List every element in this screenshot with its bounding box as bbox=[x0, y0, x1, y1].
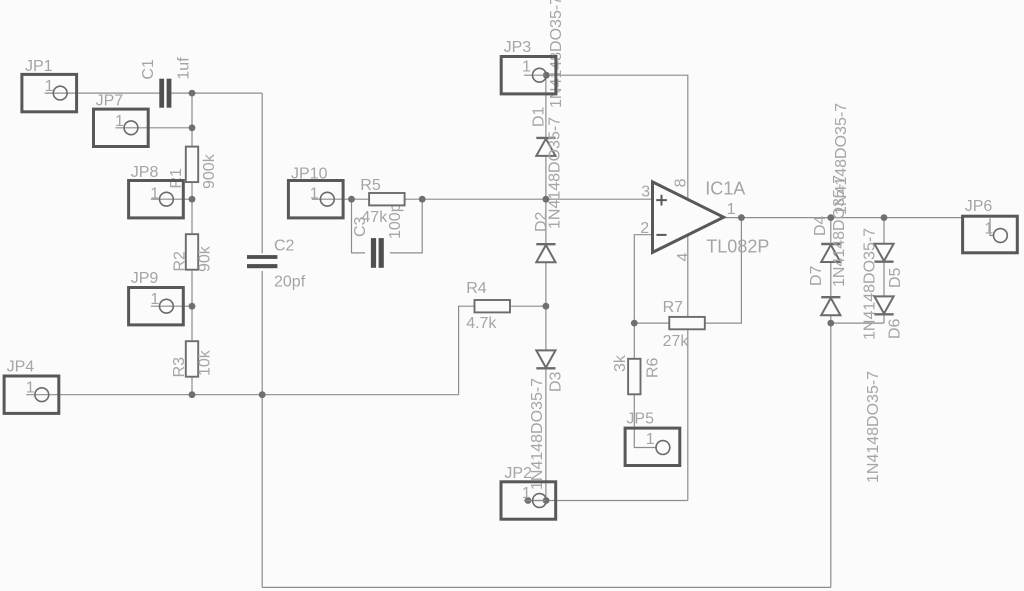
svg-text:1: 1 bbox=[522, 485, 531, 502]
wire R6 bottom to JP5 pin bbox=[634, 393, 656, 447]
junction JP8 pin / R1-R2 bbox=[189, 196, 196, 203]
wire JP3 to op-amp pin 8 bbox=[546, 75, 688, 199]
wire JP1 pin to C1 left plate bbox=[67, 92, 160, 94]
wire R2 bottom to JP9 junction bbox=[191, 271, 193, 306]
junction C2 rail / JP4 row bbox=[259, 391, 266, 398]
junction pin2 / R7 / R6 bbox=[631, 320, 638, 327]
wire C1 right plate to C2 rail, net N$1 bbox=[171, 92, 262, 94]
svg-text:1: 1 bbox=[45, 78, 54, 95]
connector JP5 bbox=[625, 411, 680, 466]
diode D7 (1N4148DO35-7) bbox=[808, 175, 848, 315]
svg-text:IC1A: IC1A bbox=[705, 179, 745, 199]
wire D4 anode to D7 cathode bbox=[830, 262, 832, 296]
svg-text:R7: R7 bbox=[663, 299, 684, 316]
junction D7 anode / bottom rail bbox=[827, 320, 834, 327]
svg-text:1: 1 bbox=[310, 186, 319, 203]
svg-text:27k: 27k bbox=[663, 333, 690, 350]
capacitor C1 (1uf) bbox=[140, 57, 193, 108]
capacitor C3 (100p) bbox=[352, 203, 404, 267]
wire junction C1 down to R1 top bbox=[191, 93, 193, 147]
wire op-amp pin 2 to feedback junction bbox=[634, 235, 652, 323]
diode D6 (1N4148DO35-7) bbox=[865, 296, 904, 483]
svg-text:1N4148DO35-7: 1N4148DO35-7 bbox=[865, 371, 882, 483]
svg-text:JP7: JP7 bbox=[96, 93, 124, 110]
wire R1 bottom to JP8 junction bbox=[191, 182, 193, 199]
svg-text:1N4148DO35-7: 1N4148DO35-7 bbox=[831, 175, 848, 287]
wire JP3 junction down to D1 cathode bbox=[545, 75, 547, 137]
connector JP3 bbox=[501, 39, 556, 94]
svg-text:JP2: JP2 bbox=[504, 465, 532, 482]
wire junction down to D5 anode bbox=[883, 218, 885, 244]
svg-text:1: 1 bbox=[115, 113, 124, 130]
svg-text:4.7k: 4.7k bbox=[466, 315, 497, 332]
resistor R3 bbox=[171, 341, 214, 377]
junction R5 right / C3 branch bbox=[419, 196, 426, 203]
op-amp IC1A (TL082P) bbox=[640, 178, 769, 261]
svg-text:1uf: 1uf bbox=[176, 57, 193, 80]
svg-text:8: 8 bbox=[673, 178, 690, 187]
svg-text:C2: C2 bbox=[274, 238, 295, 255]
junction C1 / JP7 rail top bbox=[189, 90, 196, 97]
wire R7 right up to output bbox=[705, 218, 742, 324]
wire output row to JP6 bbox=[884, 217, 963, 219]
wire D5 cathode to D6 anode bbox=[883, 263, 885, 297]
svg-text:JP4: JP4 bbox=[7, 359, 35, 376]
svg-text:1: 1 bbox=[984, 221, 993, 238]
svg-text:JP6: JP6 bbox=[965, 198, 993, 215]
resistor R2 bbox=[171, 234, 213, 272]
svg-text:1N4148DO35-7: 1N4148DO35-7 bbox=[861, 228, 878, 340]
wire JP10 pin to C3 branch junction bbox=[334, 198, 351, 200]
wire junction to R7 left bbox=[634, 322, 669, 324]
svg-text:R3: R3 bbox=[171, 357, 188, 378]
connector JP2 bbox=[501, 465, 556, 519]
svg-text:JP8: JP8 bbox=[131, 164, 159, 181]
wire C3 right branch bbox=[390, 199, 422, 253]
svg-text:1N4148DO35-7: 1N4148DO35-7 bbox=[546, 117, 563, 229]
wire right rail down to bottom bbox=[830, 323, 832, 587]
wire C3 left branch bbox=[352, 199, 366, 253]
resistor R1 bbox=[168, 147, 218, 189]
svg-text:JP5: JP5 bbox=[626, 411, 654, 428]
wire R3 bottom to GND row bbox=[191, 377, 193, 394]
junction D1-D2 / input row bbox=[543, 196, 550, 203]
resistor R6 bbox=[612, 354, 662, 394]
svg-text:D6: D6 bbox=[887, 318, 904, 339]
svg-text:C1: C1 bbox=[140, 59, 157, 80]
svg-text:10k: 10k bbox=[197, 349, 214, 376]
wire C2 rail lower segment bbox=[261, 271, 263, 395]
svg-text:R2: R2 bbox=[171, 251, 188, 272]
wire R5 right to branch junction bbox=[405, 198, 423, 200]
svg-text:100p: 100p bbox=[387, 203, 404, 239]
svg-text:JP3: JP3 bbox=[504, 39, 532, 56]
wire R4 junction down to D3 top bbox=[545, 306, 547, 350]
wire R4 right to diode rail junction bbox=[511, 305, 546, 307]
svg-text:90k: 90k bbox=[196, 245, 213, 272]
wire JP9 junction to R3 top bbox=[191, 306, 193, 341]
svg-text:JP9: JP9 bbox=[131, 270, 159, 287]
svg-text:1: 1 bbox=[150, 291, 159, 308]
svg-text:2: 2 bbox=[640, 220, 649, 237]
wire R5 row to D1-D2 junction bbox=[422, 198, 546, 200]
junction JP2 pin left bbox=[525, 497, 532, 504]
svg-text:1: 1 bbox=[522, 59, 531, 76]
wire D7-D6 bottom link bbox=[831, 322, 884, 324]
connector JP7 bbox=[94, 93, 149, 147]
wire op-amp pin 4 down to JP2 row bbox=[687, 235, 689, 500]
svg-text:1: 1 bbox=[646, 431, 655, 448]
svg-text:3: 3 bbox=[641, 184, 650, 201]
svg-text:D3: D3 bbox=[548, 371, 565, 392]
wire junction down to D4 cathode bbox=[830, 218, 832, 243]
junction output / D4 bbox=[827, 214, 834, 221]
wire output to D4 junction bbox=[741, 217, 830, 219]
wire JP4 row horizontal bbox=[49, 394, 459, 396]
wire D7 anode to bottom junction bbox=[830, 315, 832, 323]
diode D3 (1N4148DO35-7) bbox=[529, 350, 565, 490]
resistor R5 bbox=[360, 177, 404, 226]
svg-text:D7: D7 bbox=[808, 265, 825, 286]
connector JP9 bbox=[129, 270, 184, 325]
svg-text:47k: 47k bbox=[361, 209, 388, 226]
wire bottom horizontal bbox=[262, 586, 831, 588]
svg-text:D5: D5 bbox=[887, 267, 904, 288]
wire C2 rail top segment bbox=[261, 93, 263, 253]
wire JP2 pin stub bbox=[528, 500, 546, 502]
wire C2 rail down to bottom bbox=[261, 395, 263, 588]
wire JP8 junction to R2 top bbox=[191, 199, 193, 234]
diode D5 (1N4148DO35-7) bbox=[861, 228, 904, 340]
svg-text:TL082P: TL082P bbox=[706, 236, 769, 256]
wire D1-D2 junction to op-amp pin 3 bbox=[546, 198, 653, 200]
wire D1 anode to junction bbox=[545, 156, 547, 199]
wire junction down to R6 top bbox=[633, 323, 635, 359]
svg-text:900k: 900k bbox=[201, 153, 218, 189]
connector JP10 bbox=[288, 166, 343, 218]
connector JP8 bbox=[129, 164, 184, 218]
svg-text:R5: R5 bbox=[360, 177, 381, 194]
junction JP9 pin / R2-R3 bbox=[189, 303, 196, 310]
wire D4 junction to D5 junction bbox=[831, 217, 884, 219]
wire D6 cathode down bbox=[883, 316, 885, 324]
wire JP8 pin to rail bbox=[173, 198, 192, 200]
diode D1 (1N4148DO35-7) bbox=[530, 0, 565, 156]
svg-text:D1: D1 bbox=[530, 106, 547, 127]
svg-text:4: 4 bbox=[675, 253, 692, 262]
svg-text:R6: R6 bbox=[645, 357, 662, 378]
junction JP3 pin bbox=[543, 72, 550, 79]
wire D3 cathode down to JP2 bbox=[545, 369, 547, 500]
wire up to R4 left bbox=[459, 306, 475, 395]
svg-text:JP10: JP10 bbox=[291, 166, 328, 183]
junction R4 / D2-D3 bbox=[543, 303, 550, 310]
svg-text:1: 1 bbox=[150, 186, 159, 203]
diode D4 (1N4148DO35-7) bbox=[812, 103, 850, 262]
junction R3 bottom / JP4 row bbox=[189, 391, 196, 398]
wire JP7 pin to rail bbox=[138, 127, 192, 129]
junction op-amp output bbox=[738, 214, 745, 221]
resistor R7 bbox=[663, 299, 705, 350]
junction output / D5 bbox=[881, 214, 888, 221]
connector JP6 bbox=[963, 198, 1018, 253]
diode D2 (1N4148DO35-7) bbox=[533, 117, 564, 262]
svg-text:JP1: JP1 bbox=[25, 58, 53, 75]
connector JP1 bbox=[22, 58, 77, 112]
junction R5 left / C3 branch bbox=[348, 196, 355, 203]
wire junction down to D2 cathode bbox=[545, 199, 547, 243]
svg-text:D4: D4 bbox=[812, 215, 829, 236]
wire JP9 pin to rail bbox=[173, 305, 192, 307]
wire JP6 pin stub bbox=[990, 218, 994, 235]
svg-text:3k: 3k bbox=[612, 354, 629, 372]
wire junction to R5 left bbox=[352, 198, 370, 200]
wire JP2 pin to pin-4 riser bbox=[546, 500, 688, 502]
wire D2 anode to R4 junction bbox=[545, 262, 547, 306]
capacitor C2 (20pf) bbox=[247, 238, 306, 291]
svg-text:20pf: 20pf bbox=[274, 274, 306, 291]
junction JP7 pin bbox=[189, 124, 196, 131]
junction JP2 pin / D3 rail bbox=[543, 497, 550, 504]
svg-text:1: 1 bbox=[26, 380, 35, 397]
svg-text:1: 1 bbox=[727, 201, 736, 218]
svg-text:R4: R4 bbox=[466, 280, 487, 297]
wire op-amp output stub bbox=[724, 217, 742, 219]
resistor R4 bbox=[466, 280, 510, 332]
connector JP4 bbox=[4, 359, 59, 414]
